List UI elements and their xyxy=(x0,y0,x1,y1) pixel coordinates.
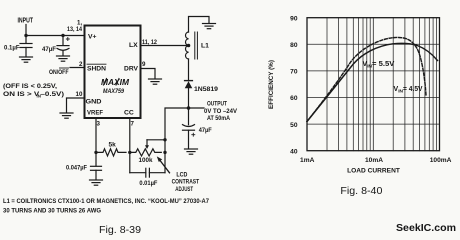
svg-text:LCD: LCD xyxy=(176,171,187,178)
x tick labels xyxy=(300,157,452,164)
curve VIN=4.5V dashed xyxy=(307,37,426,121)
svg-text:5k: 5k xyxy=(109,142,117,149)
potentiometer R2 100k xyxy=(130,149,162,156)
svg-text:0.047µF: 0.047µF xyxy=(66,165,87,172)
svg-text:0.01µF: 0.01µF xyxy=(139,180,157,187)
wire VREF pin xyxy=(95,118,97,152)
svg-text:10: 10 xyxy=(76,91,83,98)
svg-text:10mA: 10mA xyxy=(365,157,383,164)
svg-text:L1 = COILTRONICS CTX100-1 OR M: L1 = COILTRONICS CTX100-1 OR MAGNETICS, … xyxy=(3,198,209,205)
wire pot loop left xyxy=(129,152,131,172)
svg-text:SeekIC.com: SeekIC.com xyxy=(396,223,456,234)
curve VIN=5.5V solid xyxy=(307,43,438,121)
svg-text:13, 14: 13, 14 xyxy=(67,26,82,33)
svg-text:47µF: 47µF xyxy=(199,127,212,134)
svg-text:AT 50mA: AT 50mA xyxy=(207,115,230,122)
svg-text:80: 80 xyxy=(290,42,298,49)
capacitor C1 0.1uF xyxy=(20,36,32,57)
wire input drop xyxy=(25,25,27,36)
svg-text:MAX759: MAX759 xyxy=(103,88,124,95)
svg-text:LX: LX xyxy=(129,42,138,49)
wire CC pin xyxy=(129,118,131,152)
svg-text:ON/OFF: ON/OFF xyxy=(49,69,69,76)
ground (DRV) xyxy=(149,79,162,84)
label LCD CONTRAST ADJUST xyxy=(172,171,200,193)
resistor R1 5k xyxy=(96,149,126,156)
junction pot right xyxy=(163,151,166,154)
svg-text:VREF: VREF xyxy=(87,110,103,117)
capacitor C2 47uF xyxy=(57,36,69,56)
svg-text:ADJUST: ADJUST xyxy=(175,186,193,193)
svg-text:0.1µF: 0.1µF xyxy=(4,45,20,52)
svg-text:100mA: 100mA xyxy=(430,157,452,164)
ground (GND pin) xyxy=(60,113,73,118)
axis frame xyxy=(307,18,440,151)
svg-text:CONTRAST: CONTRAST xyxy=(172,179,200,186)
svg-text:50: 50 xyxy=(290,122,298,129)
svg-text:3: 3 xyxy=(97,121,101,128)
svg-text:9: 9 xyxy=(142,61,146,68)
svg-text:100k: 100k xyxy=(139,157,153,164)
svg-text:GND: GND xyxy=(86,99,102,106)
svg-text:1mA: 1mA xyxy=(300,157,315,164)
svg-text:30 TURNS AND 30 TURNS 26 AWG: 30 TURNS AND 30 TURNS 26 AWG xyxy=(3,208,101,215)
junction wiper/output xyxy=(163,138,166,141)
capacitor C3 47uF output xyxy=(183,108,195,149)
label VIN = 4.5V xyxy=(394,86,423,95)
svg-text:1N5819: 1N5819 xyxy=(194,86,218,93)
junction 47uF tap xyxy=(61,34,64,37)
node ON/OFF label xyxy=(49,68,69,76)
ground (input C1) xyxy=(20,57,33,62)
junction input node xyxy=(24,34,27,37)
ground (input C2) xyxy=(57,56,70,61)
ground (output cap) xyxy=(185,149,198,154)
callout arrow LCD contrast xyxy=(157,156,170,172)
label VIN = 5.5V xyxy=(363,61,395,70)
ground (VREF cap) xyxy=(90,180,103,185)
svg-text:CC: CC xyxy=(124,110,134,117)
grid vertical lines decade 1 xyxy=(327,18,373,151)
wire output to pot loop xyxy=(165,108,189,140)
junction VREF node xyxy=(94,151,97,154)
svg-text:47µF: 47µF xyxy=(42,46,56,53)
svg-text:L1: L1 xyxy=(201,43,209,50)
svg-text:0V TO –24V: 0V TO –24V xyxy=(204,108,238,115)
svg-text:DRV: DRV xyxy=(124,66,138,73)
wiper arrow 100k xyxy=(145,140,165,149)
svg-text:SHDN: SHDN xyxy=(87,66,106,73)
svg-text:EFFICIENCY (%): EFFICIENCY (%) xyxy=(268,60,275,109)
op-amp U1 MAX759 box xyxy=(85,26,141,119)
inductor L1 xyxy=(186,32,198,59)
wire input rail to V+ xyxy=(26,35,85,37)
junction output node xyxy=(187,106,191,110)
wire LX node to diode xyxy=(188,59,190,81)
svg-text:= 5.5V: = 5.5V xyxy=(372,61,395,68)
svg-text:40: 40 xyxy=(290,148,298,155)
diode D1 1N5819 xyxy=(185,81,193,108)
junction LX node xyxy=(187,44,191,48)
wire output stub xyxy=(189,107,205,109)
svg-text:Fig. 8-39: Fig. 8-39 xyxy=(99,225,141,236)
wire GND pin xyxy=(67,98,85,113)
svg-text:ON IS > V –0.5V): ON IS > V –0.5V) xyxy=(3,91,64,98)
pin SHDN xyxy=(87,64,106,72)
ground (L1 top) xyxy=(203,24,216,29)
svg-text:INPUT: INPUT xyxy=(18,18,34,25)
svg-text:70: 70 xyxy=(290,69,298,76)
wire LX to L1 xyxy=(141,45,189,47)
svg-text:7: 7 xyxy=(131,121,135,128)
wire pot loop right xyxy=(164,140,166,173)
capacitor C5 0.01uF xyxy=(130,168,165,177)
svg-text:LOAD CURRENT: LOAD CURRENT xyxy=(347,168,400,175)
svg-text:90: 90 xyxy=(290,15,298,22)
svg-text:IN: IN xyxy=(37,94,41,99)
grid vertical lines decade 2 xyxy=(393,18,436,151)
svg-text:V+: V+ xyxy=(88,34,97,41)
svg-text:60: 60 xyxy=(290,95,298,102)
junction CC node xyxy=(128,151,131,154)
y tick labels xyxy=(290,15,298,155)
grid horizontal lines xyxy=(307,44,440,124)
wire DRV pin xyxy=(141,69,156,79)
svg-text:(OFF IS < 0.25V,: (OFF IS < 0.25V, xyxy=(3,83,57,90)
wire SHDN pin xyxy=(70,67,85,69)
svg-text:Fig. 8-40: Fig. 8-40 xyxy=(340,186,382,197)
svg-text:= 4.5V: = 4.5V xyxy=(403,86,423,93)
note L1 winding xyxy=(3,198,209,215)
wire L1 to top ground xyxy=(189,17,210,33)
capacitor C4 0.047uF xyxy=(91,152,102,179)
svg-text:OUTPUT: OUTPUT xyxy=(207,101,227,108)
